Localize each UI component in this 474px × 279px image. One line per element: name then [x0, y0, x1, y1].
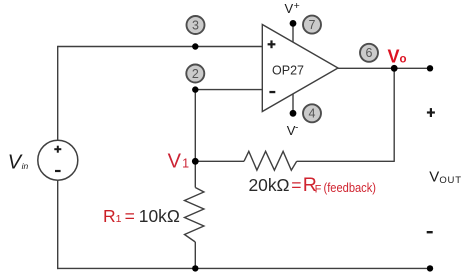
wire: top horizontal (+ input net): [58, 46, 263, 48]
wire: inverting input horizontal: [195, 89, 262, 91]
svg-text:7: 7: [309, 18, 316, 32]
pin 7 circle: [303, 16, 321, 34]
wire: feedback vertical up to output: [393, 68, 395, 162]
wire: RF right lead to feedback corner: [297, 160, 395, 162]
voltage source Vin (circle): [38, 140, 78, 180]
wire: bottom horizontal: [57, 267, 430, 269]
svg-text:(feedback): (feedback): [324, 181, 377, 195]
wire: output horizontal: [338, 67, 430, 69]
junction dot output/feedback: [391, 65, 398, 72]
svg-text:=: =: [291, 175, 301, 195]
wire: left vertical lower (Vin bottom lead): [57, 181, 59, 269]
svg-text:10kΩ: 10kΩ: [139, 206, 180, 226]
terminal dot bottom right: [427, 265, 433, 271]
terminal dot V-: [290, 110, 297, 117]
wire: R1 bottom lead: [194, 242, 196, 268]
pin 4 circle: [303, 104, 321, 122]
wire: vertical from pin2 node down to R1: [194, 90, 196, 188]
op-amp minus input marker: [269, 91, 275, 93]
wire: left vertical upper (Vin top lead): [57, 46, 59, 140]
wire: V- supply stub: [292, 94, 294, 113]
svg-text:F: F: [315, 183, 322, 195]
terminal dot output right: [427, 65, 433, 71]
svg-text:OP27: OP27: [272, 64, 304, 78]
resistor RF 20k (horizontal zigzag): [244, 151, 297, 170]
svg-text:6: 6: [366, 46, 373, 60]
svg-text:20kΩ: 20kΩ: [249, 175, 290, 195]
resistor R1 (vertical zigzag): [185, 188, 204, 243]
svg-text:4: 4: [309, 107, 316, 121]
voltage source plus sign: [54, 148, 61, 150]
wire: V1 node to feedback resistor: [195, 160, 244, 162]
label output plus: [427, 111, 435, 113]
op-amp plus input marker: [268, 43, 276, 45]
svg-text:3: 3: [192, 18, 199, 32]
pin 2 circle: [186, 65, 204, 83]
svg-text:2: 2: [192, 67, 199, 81]
voltage source minus sign: [55, 170, 61, 172]
pin 3 circle: [187, 16, 205, 34]
pin 6 circle: [360, 44, 378, 62]
junction dot bottom-R1: [192, 265, 198, 271]
svg-text:=: =: [125, 206, 135, 226]
junction dot pin3 node: [192, 43, 198, 49]
wire: V+ supply stub: [292, 23, 294, 42]
junction dot pin2 node: [192, 86, 198, 92]
terminal dot V+: [290, 20, 297, 27]
op-amp U1 triangle: [262, 25, 338, 112]
junction dot V1: [192, 158, 199, 165]
label output minus: [427, 231, 433, 233]
